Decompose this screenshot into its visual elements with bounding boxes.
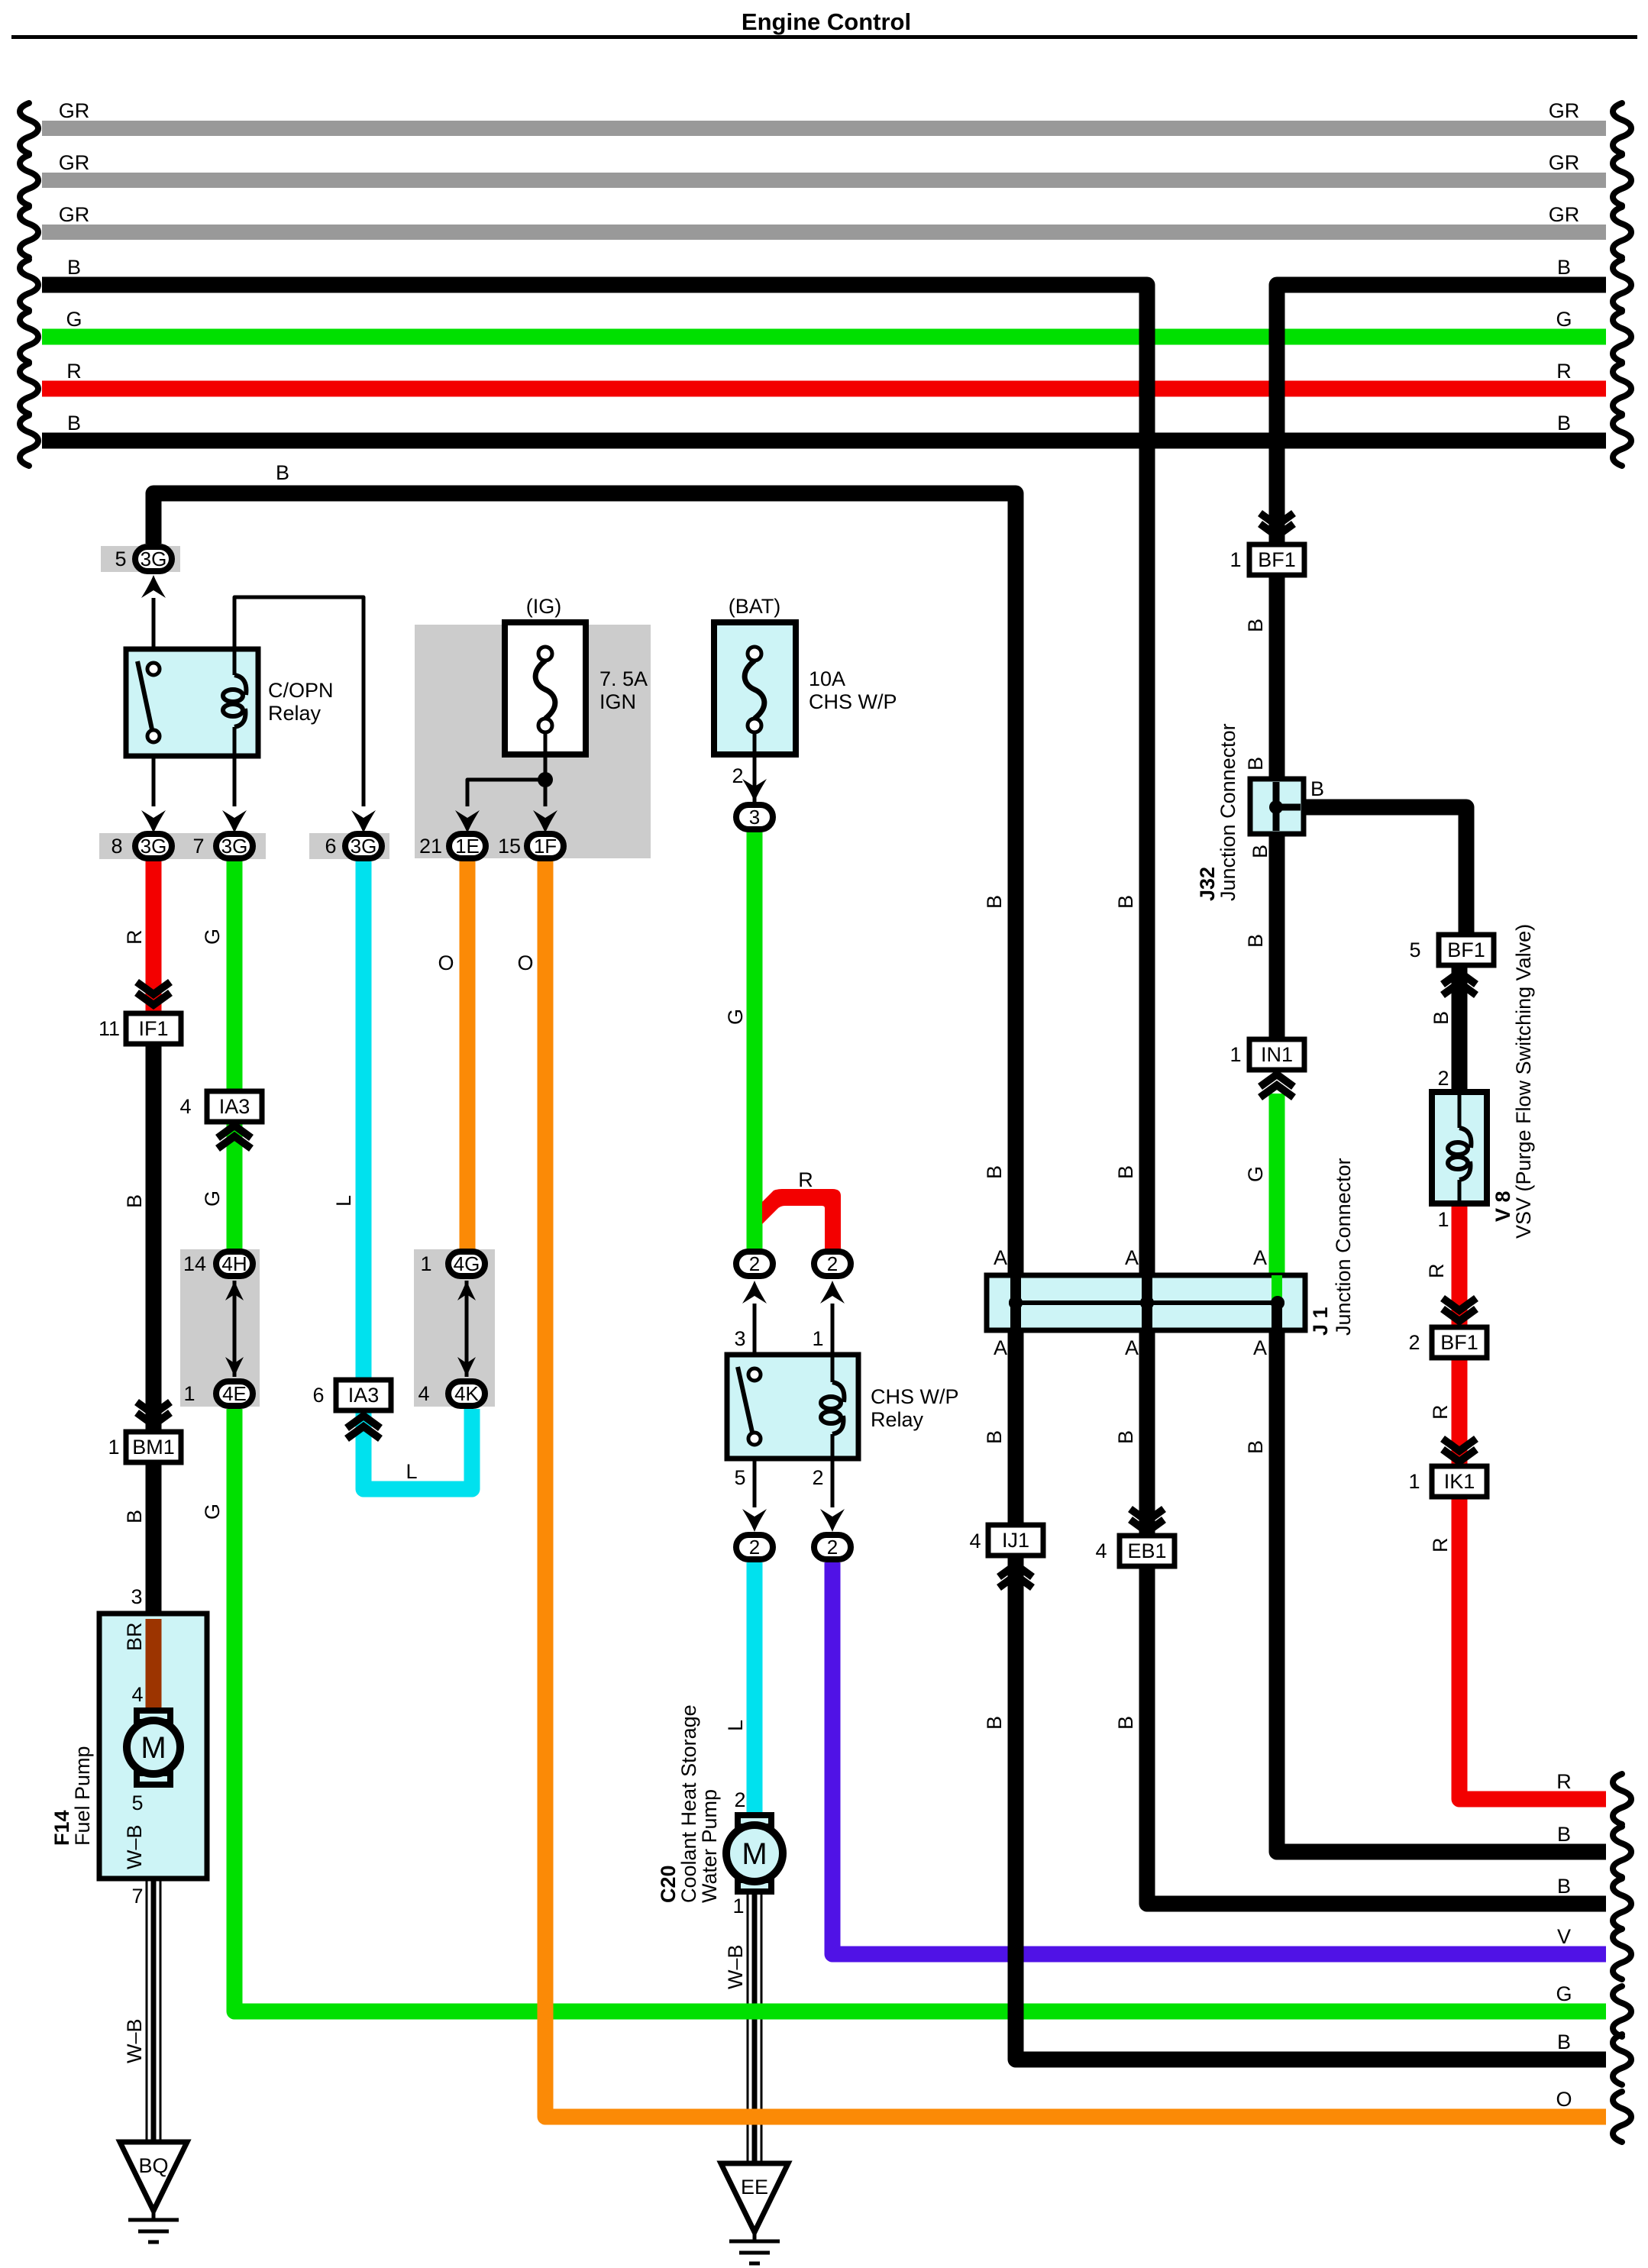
wire BR inside fuel pump bbox=[146, 1619, 162, 1711]
svg-text:4: 4 bbox=[179, 1095, 191, 1118]
svg-text:8: 8 bbox=[111, 835, 122, 858]
ground BQ bbox=[120, 2142, 187, 2211]
connector block 4G/4K bbox=[414, 1249, 495, 1407]
svg-text:B: B bbox=[983, 895, 1006, 909]
svg-text:Coolant Heat Storage: Coolant Heat Storage bbox=[677, 1704, 700, 1903]
connector box 5 BF1 bbox=[1439, 935, 1494, 965]
svg-text:R: R bbox=[1425, 1264, 1448, 1279]
bus cut squiggle left bbox=[20, 207, 38, 257]
wire coil to 6 3G bbox=[234, 597, 364, 806]
relay pin wires down bbox=[152, 756, 156, 806]
svg-text:M: M bbox=[141, 1731, 166, 1765]
bus cut squiggle right bbox=[1613, 363, 1631, 414]
connector oval 2 bottom left bbox=[736, 1535, 773, 1559]
svg-text:B: B bbox=[983, 1430, 1006, 1444]
svg-text:R: R bbox=[1429, 1405, 1452, 1420]
svg-text:BQ: BQ bbox=[138, 2154, 168, 2177]
svg-text:GR: GR bbox=[1549, 203, 1580, 226]
connector box 4 EB1 bbox=[1120, 1536, 1175, 1566]
svg-text:O: O bbox=[1556, 2088, 1572, 2111]
wire R from 2 BF1 to 1 IK1 bbox=[1452, 1358, 1468, 1468]
svg-text:R: R bbox=[1556, 1770, 1572, 1793]
svg-text:(IG): (IG) bbox=[526, 595, 562, 618]
fuel pump F14 box bbox=[99, 1614, 207, 1879]
svg-text:B: B bbox=[1244, 619, 1267, 632]
connector oval 2 right bbox=[814, 1252, 851, 1276]
right edge squiggle bbox=[1613, 1929, 1631, 1979]
wire V from CHS relay down and right to edge bbox=[832, 1562, 1606, 1954]
right edge squiggle bbox=[1613, 2034, 1631, 2085]
svg-text:GR: GR bbox=[1549, 99, 1580, 122]
fuse 10A CHS W/P symbol bbox=[748, 647, 761, 661]
fuse 7.5A IGN box bbox=[505, 622, 586, 754]
bus cut squiggle right bbox=[1613, 207, 1631, 257]
svg-text:A: A bbox=[1125, 1246, 1139, 1269]
svg-text:IN1: IN1 bbox=[1261, 1043, 1293, 1066]
svg-text:V 8: V 8 bbox=[1491, 1191, 1514, 1222]
svg-text:1: 1 bbox=[108, 1436, 119, 1459]
svg-text:J 1: J 1 bbox=[1309, 1307, 1332, 1336]
arrow into 7 3G bbox=[222, 810, 247, 833]
connector strip 6 3G bbox=[309, 833, 389, 859]
svg-text:B: B bbox=[983, 1716, 1006, 1730]
wire G from 1 IN1 to J1 bbox=[1269, 1094, 1285, 1278]
svg-text:4G: 4G bbox=[454, 1252, 480, 1275]
svg-text:B: B bbox=[1114, 1716, 1137, 1730]
bus wire G5 (G) bbox=[42, 329, 1606, 345]
motor F14 brushes bbox=[137, 1711, 170, 1722]
wire B BM1 to fuel pump bbox=[146, 1461, 162, 1614]
wire L from CHS relay to water pump bbox=[747, 1562, 763, 1816]
svg-text:B: B bbox=[1114, 1430, 1137, 1444]
svg-text:R: R bbox=[798, 1168, 813, 1191]
svg-text:Engine Control: Engine Control bbox=[742, 8, 911, 35]
svg-text:IJ1: IJ1 bbox=[1002, 1529, 1029, 1552]
wire O from 21 1E to 1 4G bbox=[460, 861, 476, 1250]
svg-text:B: B bbox=[1557, 1875, 1571, 1898]
svg-text:1: 1 bbox=[812, 1327, 823, 1350]
right edge squiggle bbox=[1613, 2092, 1631, 2142]
svg-text:7: 7 bbox=[131, 1885, 143, 1908]
svg-text:11: 11 bbox=[99, 1017, 120, 1040]
wire fuse BAT to oval 3 bbox=[753, 732, 757, 803]
svg-text:O: O bbox=[517, 951, 533, 974]
svg-text:2: 2 bbox=[734, 1788, 745, 1811]
bus wire B4 right segment bbox=[1277, 285, 1606, 300]
svg-text:1: 1 bbox=[1230, 548, 1241, 571]
connector strip 8/7 3G bbox=[99, 833, 266, 859]
svg-text:Fuel Pump: Fuel Pump bbox=[71, 1746, 94, 1846]
wire G from 7 3G to 4 IA3 bbox=[227, 861, 243, 1095]
svg-text:1: 1 bbox=[1408, 1470, 1420, 1493]
svg-text:B: B bbox=[1244, 1440, 1267, 1454]
wire fuse IGN to junction bbox=[544, 732, 548, 780]
svg-text:3G: 3G bbox=[141, 548, 167, 570]
svg-text:BF1: BF1 bbox=[1440, 1331, 1478, 1354]
connector strip 5 3G bbox=[101, 546, 180, 572]
connector box 1 BF1 bbox=[1249, 544, 1304, 575]
bus cut squiggle left bbox=[20, 155, 38, 205]
svg-text:4H: 4H bbox=[221, 1252, 247, 1275]
motor C20 circle bbox=[726, 1825, 783, 1882]
relay CHS W/P box bbox=[727, 1355, 858, 1459]
connector oval 2 bottom right bbox=[814, 1535, 851, 1559]
connector oval 2 left bbox=[736, 1252, 773, 1276]
svg-text:B: B bbox=[1244, 934, 1267, 948]
svg-text:2: 2 bbox=[749, 1252, 760, 1275]
svg-text:B: B bbox=[1557, 2031, 1571, 2053]
svg-text:V: V bbox=[1557, 1925, 1571, 1948]
svg-text:21: 21 bbox=[419, 835, 442, 858]
svg-text:L: L bbox=[406, 1460, 417, 1483]
svg-text:Relay: Relay bbox=[871, 1408, 924, 1431]
relay C/OPN coil bbox=[233, 651, 237, 675]
svg-text:L: L bbox=[724, 1720, 747, 1731]
junction dot IG bbox=[538, 772, 553, 787]
right edge squiggle bbox=[1613, 1827, 1631, 1877]
svg-text:B: B bbox=[1114, 1165, 1137, 1179]
svg-text:R: R bbox=[66, 360, 82, 383]
connector oval 4 4K bbox=[448, 1381, 485, 1406]
svg-text:B: B bbox=[67, 412, 81, 435]
wire O from 15 1F down and right to edge bbox=[545, 861, 1606, 2117]
svg-text:5: 5 bbox=[734, 1466, 745, 1489]
ground EE bbox=[721, 2163, 788, 2232]
bus wire GR1 (GR) bbox=[42, 121, 1606, 136]
svg-text:7: 7 bbox=[192, 835, 204, 858]
wire G W2 through J1 top bbox=[1272, 1275, 1282, 1303]
svg-text:B: B bbox=[1557, 412, 1571, 435]
bus wire GR2 (GR) bbox=[42, 173, 1606, 188]
wire B W1 through J1 bbox=[1142, 1275, 1152, 1330]
svg-text:2: 2 bbox=[1437, 1067, 1449, 1090]
arrow into 8 3G bbox=[141, 810, 166, 833]
bus cut squiggle right bbox=[1613, 260, 1631, 310]
connector oval 6 3G bbox=[345, 834, 382, 858]
valve VSV V8 box bbox=[1432, 1092, 1487, 1203]
svg-text:B: B bbox=[1430, 1011, 1453, 1025]
wire B IF1 to BM1 bbox=[146, 1044, 162, 1433]
svg-text:R: R bbox=[1556, 360, 1572, 383]
chevron below 5 BF1 bbox=[1443, 983, 1476, 995]
svg-text:1: 1 bbox=[420, 1252, 431, 1275]
motor C20 brushes bbox=[738, 1815, 771, 1827]
svg-text:1: 1 bbox=[1437, 1208, 1449, 1231]
svg-text:G: G bbox=[1556, 308, 1572, 331]
connector box 1 BM1 bbox=[126, 1432, 181, 1462]
wire B W_left through J1 bbox=[1010, 1275, 1021, 1330]
svg-text:2: 2 bbox=[827, 1536, 838, 1559]
chevron below 1 IN1 bbox=[1260, 1085, 1294, 1097]
svg-text:4E: 4E bbox=[222, 1382, 247, 1405]
svg-text:15: 15 bbox=[498, 835, 521, 858]
svg-text:C20: C20 bbox=[657, 1865, 680, 1903]
title rule bbox=[11, 35, 1637, 39]
svg-text:2: 2 bbox=[749, 1536, 760, 1559]
pass-through arrow 4G-4K bbox=[465, 1281, 469, 1377]
wire G from 4 IA3 to 14 4H bbox=[227, 1121, 243, 1250]
svg-text:GR: GR bbox=[59, 203, 90, 226]
fuse 7.5A IGN symbol bbox=[538, 647, 552, 661]
wire B vertical W2 bus to 1 BF1 bbox=[1269, 285, 1285, 544]
right edge squiggle bbox=[1613, 1986, 1631, 2037]
svg-text:3G: 3G bbox=[221, 835, 248, 858]
svg-text:2: 2 bbox=[1408, 1331, 1420, 1354]
wire B J32 right branch to 5 BF1 bbox=[1301, 807, 1466, 935]
connector box 11 IF1 bbox=[126, 1013, 181, 1044]
fuse box panel (IG) bbox=[415, 625, 651, 858]
svg-text:B: B bbox=[67, 256, 81, 279]
svg-text:A: A bbox=[1253, 1336, 1267, 1359]
bus cut squiggle right bbox=[1613, 312, 1631, 362]
bus cut squiggle right bbox=[1613, 155, 1631, 205]
svg-text:3: 3 bbox=[749, 806, 760, 829]
svg-text:B: B bbox=[1249, 845, 1272, 858]
connector box 2 BF1 bbox=[1432, 1327, 1487, 1358]
svg-text:BM1: BM1 bbox=[132, 1436, 175, 1459]
svg-text:10A: 10A bbox=[809, 667, 845, 690]
svg-text:Junction Connector: Junction Connector bbox=[1332, 1158, 1355, 1336]
svg-text:4: 4 bbox=[131, 1683, 143, 1706]
wire relay pin 5 bbox=[753, 1459, 757, 1507]
wire L from 6 3G to 6 IA3 bbox=[356, 861, 372, 1382]
svg-text:W–B: W–B bbox=[724, 1944, 747, 1989]
arrow into oval 2 left bbox=[742, 1281, 767, 1304]
wire R jog to CHS relay pin 2 right bbox=[762, 1189, 841, 1249]
svg-text:7. 5A: 7. 5A bbox=[599, 667, 648, 690]
relay CHS W/P switch bbox=[738, 1367, 753, 1436]
connector box 6 IA3 bbox=[336, 1380, 391, 1410]
svg-text:1: 1 bbox=[1230, 1043, 1241, 1066]
connector oval 1 4E bbox=[216, 1381, 253, 1406]
svg-text:GR: GR bbox=[59, 99, 90, 122]
svg-text:BR: BR bbox=[123, 1622, 146, 1651]
svg-text:4: 4 bbox=[418, 1382, 429, 1405]
svg-text:G: G bbox=[66, 308, 82, 331]
connector oval 14 4H bbox=[216, 1252, 253, 1276]
svg-text:B: B bbox=[276, 461, 289, 484]
svg-text:A: A bbox=[994, 1336, 1007, 1359]
svg-text:G: G bbox=[1556, 1982, 1572, 2005]
svg-text:G: G bbox=[1244, 1166, 1267, 1182]
svg-text:CHS W/P: CHS W/P bbox=[871, 1385, 959, 1408]
arrow into 15 1F bbox=[533, 810, 557, 833]
svg-text:CHS W/P: CHS W/P bbox=[809, 690, 897, 713]
connector box 1 IK1 bbox=[1432, 1466, 1487, 1497]
wire B 1 BF1 to J32 bbox=[1269, 574, 1285, 780]
relay C/OPN box bbox=[126, 649, 258, 756]
bus cut squiggle left bbox=[20, 415, 38, 466]
motor F14 circle bbox=[127, 1720, 180, 1774]
right edge squiggle bbox=[1613, 1879, 1631, 1929]
svg-text:VSV (Purge Flow Switching Valv: VSV (Purge Flow Switching Valve) bbox=[1512, 924, 1535, 1239]
connector block 4H/4E bbox=[180, 1249, 260, 1407]
svg-text:Junction Connector: Junction Connector bbox=[1217, 723, 1239, 901]
svg-text:6: 6 bbox=[325, 835, 336, 858]
svg-text:4: 4 bbox=[969, 1530, 981, 1552]
svg-text:2: 2 bbox=[732, 764, 743, 787]
connector oval 5 3G bbox=[135, 547, 172, 571]
chevron into 11 IF1 bbox=[137, 982, 170, 994]
fuse 10A CHS W/P box bbox=[714, 622, 796, 754]
svg-text:IA3: IA3 bbox=[219, 1095, 250, 1118]
wire relay pin 3 bbox=[753, 1304, 757, 1355]
svg-text:3G: 3G bbox=[351, 835, 377, 858]
svg-text:GR: GR bbox=[59, 151, 90, 174]
svg-text:IA3: IA3 bbox=[348, 1384, 380, 1407]
bus wire R6 (R) bbox=[42, 381, 1606, 397]
connector oval 21 1E bbox=[449, 834, 486, 858]
svg-text:M: M bbox=[742, 1837, 767, 1871]
svg-text:B: B bbox=[1114, 895, 1137, 909]
svg-text:G: G bbox=[201, 1191, 224, 1207]
svg-text:14: 14 bbox=[183, 1252, 206, 1275]
wire B J32 to 1 IN1 bbox=[1269, 832, 1285, 1041]
connector oval 8 3G bbox=[135, 834, 172, 858]
wire R from 8 3G to IF1 bbox=[146, 861, 162, 1013]
svg-text:L: L bbox=[332, 1195, 355, 1207]
svg-text:C/OPN: C/OPN bbox=[268, 679, 334, 702]
bus cut squiggle left bbox=[20, 260, 38, 310]
wire G from 1 4E down and right to edge bbox=[234, 1409, 1606, 2011]
arrow into oval 2 bottom right bbox=[820, 1509, 845, 1532]
svg-text:3: 3 bbox=[131, 1585, 142, 1608]
svg-text:O: O bbox=[438, 951, 454, 974]
svg-text:B: B bbox=[1244, 757, 1267, 771]
svg-text:A: A bbox=[1253, 1246, 1267, 1269]
svg-text:6: 6 bbox=[312, 1384, 324, 1407]
chevron into 1 BM1 bbox=[137, 1402, 170, 1414]
svg-text:2: 2 bbox=[827, 1252, 838, 1275]
svg-text:B: B bbox=[1557, 256, 1571, 279]
arrow into oval 2 right bbox=[820, 1281, 845, 1304]
connector oval 3 bbox=[736, 805, 773, 829]
arrow into oval 2 bottom left bbox=[742, 1509, 767, 1532]
bus cut squiggle right bbox=[1613, 103, 1631, 153]
svg-text:5: 5 bbox=[115, 548, 126, 570]
chevron into 1 BF1 bbox=[1260, 513, 1294, 525]
pass-through arrow 4H-4E bbox=[233, 1281, 237, 1377]
chevron into 4 EB1 bbox=[1130, 1509, 1164, 1521]
svg-text:IF1: IF1 bbox=[138, 1017, 168, 1040]
svg-text:G: G bbox=[201, 929, 224, 945]
wire B 5 BF1 to VSV bbox=[1452, 965, 1468, 1092]
wire G from BAT fuse to CHS relay pin 2 bbox=[747, 832, 763, 1249]
wire junction to 15 1F bbox=[544, 780, 548, 806]
wire B from bus to 5 3G and down to IJ1 and right edge bbox=[153, 493, 1016, 1278]
arrow into 5 3G bbox=[141, 575, 166, 598]
connector oval 15 1F bbox=[527, 834, 564, 858]
svg-text:R: R bbox=[1429, 1538, 1452, 1553]
svg-text:A: A bbox=[1125, 1336, 1139, 1359]
wire relay pin 2 bbox=[831, 1459, 835, 1507]
connector oval 1 4G bbox=[448, 1252, 485, 1276]
wire B below J1 down and right to edge bbox=[1277, 1328, 1606, 1852]
bus wire GR3 (GR) bbox=[42, 225, 1606, 240]
chevron below 4 IA3 bbox=[218, 1136, 251, 1149]
chevron below 6 IA3 bbox=[347, 1426, 380, 1439]
svg-text:3: 3 bbox=[734, 1327, 745, 1350]
wire relay pin 1 bbox=[831, 1304, 835, 1355]
bus cut squiggle left bbox=[20, 103, 38, 153]
svg-text:3G: 3G bbox=[141, 835, 167, 858]
svg-text:IK1: IK1 bbox=[1444, 1470, 1475, 1493]
svg-text:B: B bbox=[123, 1194, 146, 1208]
wire relay switch to 5 3G bbox=[152, 598, 156, 651]
svg-text:B: B bbox=[983, 1165, 1006, 1179]
wire B W2 through J1 bottom bbox=[1272, 1303, 1282, 1330]
junction connector J32 box bbox=[1250, 779, 1304, 834]
wire W-B fuel pump to ground BQ bbox=[146, 1785, 148, 2142]
arrow into oval 3 bbox=[742, 779, 767, 802]
svg-text:W–B: W–B bbox=[123, 2018, 146, 2063]
right edge squiggle bbox=[1613, 1774, 1631, 1824]
wire R from VSV to 2 BF1 bbox=[1452, 1203, 1468, 1328]
svg-text:(BAT): (BAT) bbox=[729, 595, 781, 618]
svg-text:G: G bbox=[201, 1504, 224, 1520]
relay CHS W/P coil bbox=[831, 1356, 835, 1382]
svg-text:1: 1 bbox=[732, 1895, 744, 1917]
svg-text:EE: EE bbox=[741, 2176, 768, 2199]
svg-text:1F: 1F bbox=[534, 835, 557, 858]
svg-text:A: A bbox=[994, 1246, 1007, 1269]
svg-text:R: R bbox=[123, 930, 146, 945]
connector box 1 IN1 bbox=[1249, 1039, 1304, 1070]
wire W-B water pump to ground EE bbox=[747, 1890, 749, 2163]
chevron into 1 IK1 bbox=[1443, 1439, 1476, 1451]
svg-text:Water Pump: Water Pump bbox=[698, 1789, 721, 1903]
svg-text:2: 2 bbox=[812, 1466, 823, 1489]
wire R from 1 IK1 down and right to edge bbox=[1459, 1495, 1606, 1799]
svg-text:J32: J32 bbox=[1196, 867, 1219, 901]
svg-text:G: G bbox=[724, 1009, 747, 1025]
bus wire B4 left segment bbox=[42, 285, 1147, 300]
chevron into 4 IJ1 bbox=[999, 1575, 1032, 1588]
svg-text:5: 5 bbox=[131, 1791, 143, 1814]
svg-text:EB1: EB1 bbox=[1127, 1539, 1166, 1562]
relay C/OPN switch bbox=[137, 661, 153, 733]
svg-text:5: 5 bbox=[1409, 939, 1420, 961]
svg-text:B: B bbox=[123, 1510, 146, 1523]
connector box 4 IJ1 bbox=[988, 1525, 1043, 1556]
svg-text:4K: 4K bbox=[454, 1382, 479, 1405]
svg-text:1: 1 bbox=[183, 1382, 195, 1405]
svg-text:Relay: Relay bbox=[268, 702, 322, 725]
bus cut squiggle left bbox=[20, 312, 38, 362]
bus wire B7 (B) bbox=[42, 433, 1606, 449]
svg-text:W–B: W–B bbox=[123, 1824, 146, 1869]
svg-text:GR: GR bbox=[1549, 151, 1580, 174]
bus cut squiggle left bbox=[20, 363, 38, 414]
redraw J1 internals bbox=[1016, 1300, 1278, 1305]
svg-text:B: B bbox=[1557, 1823, 1571, 1846]
svg-text:BF1: BF1 bbox=[1258, 548, 1296, 571]
bus cut squiggle right bbox=[1613, 415, 1631, 466]
wire L from 6 IA3 to 4 4K bbox=[364, 1409, 472, 1489]
chevron into 2 BF1 bbox=[1443, 1298, 1476, 1310]
wire B vertical W1 bus to EB1 and right edge bbox=[1139, 285, 1155, 1278]
connector oval 7 3G bbox=[216, 834, 253, 858]
arrow into 21 1E bbox=[455, 810, 480, 833]
wire junction to 21 1E bbox=[467, 780, 545, 806]
connector box 4 IA3 bbox=[207, 1091, 262, 1122]
svg-text:4: 4 bbox=[1095, 1539, 1107, 1562]
svg-text:1E: 1E bbox=[455, 835, 480, 858]
svg-text:B: B bbox=[1310, 777, 1324, 800]
svg-text:BF1: BF1 bbox=[1447, 939, 1485, 961]
svg-text:F14: F14 bbox=[50, 1810, 73, 1846]
svg-text:IGN: IGN bbox=[599, 690, 636, 713]
